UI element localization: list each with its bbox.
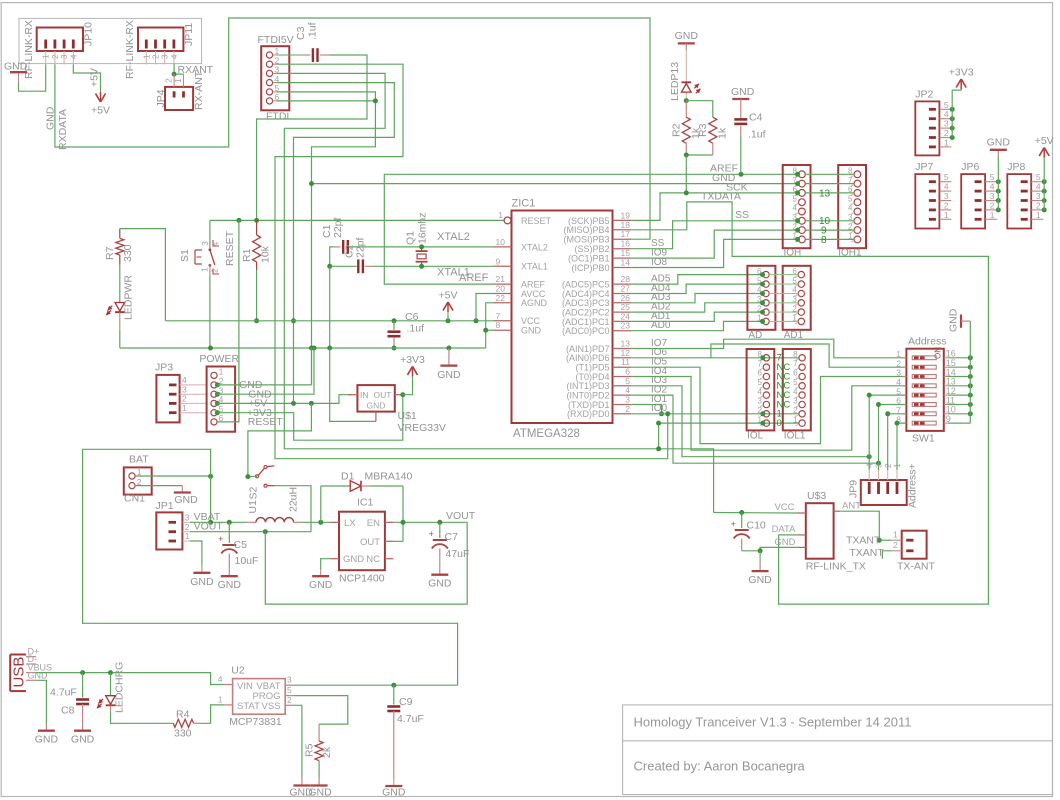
svg-text:.1uf: .1uf [407,323,425,335]
pin (ICP)PB0 right [613,267,632,269]
wire IO2 to JP9 riser [631,395,878,463]
wire FTDI-GND riser lower [311,348,313,385]
svg-text:5: 5 [287,685,292,695]
svg-text:C5: C5 [234,539,248,551]
node RXANT junction [172,72,177,77]
svg-text:5: 5 [848,194,853,203]
svg-text:OUT: OUT [374,390,392,400]
svg-text:GND: GND [774,537,795,548]
svg-text:TXANT: TXANT [846,535,881,547]
svg-text:D1: D1 [341,471,355,483]
capacitor C6 [393,321,395,330]
wire IOH to IOH1 rows [805,173,854,175]
svg-text:47uF: 47uF [446,548,470,560]
svg-text:ZIC1: ZIC1 [512,198,536,210]
power +3V3 arrow (JP2) [956,79,961,88]
svg-text:(ICP)PB0: (ICP)PB0 [571,263,609,273]
pin (ADC2)PC2 right [613,311,632,313]
svg-text:GND: GND [437,369,461,381]
wire SCK net [631,193,799,221]
svg-text:4: 4 [170,54,179,59]
wire FTDI pin1 (DTR) staircase to RESET [257,55,367,220]
svg-text:5: 5 [757,378,762,387]
svg-text:1: 1 [498,210,503,220]
svg-text:3: 3 [757,397,762,406]
connector JP11 [138,28,183,52]
pin USB VBUS [26,672,36,674]
ic U$1 VREG33V [357,385,394,412]
svg-text:IOH1: IOH1 [838,248,862,259]
svg-text:1: 1 [219,367,224,377]
svg-text:8: 8 [496,320,501,330]
svg-text:GND: GND [35,734,59,746]
svg-text:7: 7 [793,359,798,368]
svg-text:+: + [429,529,434,539]
node C10 junction [739,510,744,515]
ground GND (JP1) [193,572,210,574]
svg-text:5: 5 [793,194,798,203]
resistor R3 [709,117,717,143]
wire IO9 net [631,230,799,258]
connector IOH [783,165,811,248]
wire VBAT loop to charger [83,449,458,685]
svg-text:22: 22 [496,293,506,303]
svg-text:(MOSI)PB3: (MOSI)PB3 [563,235,609,245]
wire LED13 pin [685,50,687,82]
ground GND (R5) [311,784,328,786]
svg-text:1: 1 [200,267,210,272]
svg-text:AGND: AGND [521,298,548,308]
svg-text:XTAL1: XTAL1 [521,262,548,272]
svg-text:4: 4 [793,387,798,396]
pin SW1 4 [903,385,907,387]
svg-text:AD0: AD0 [651,320,671,331]
pin IN stub [348,394,357,396]
svg-text:JP8: JP8 [1007,161,1025,173]
wire IO0 row to IOL1 pin2 [631,413,798,415]
svg-text:RF-LINK_TX: RF-LINK_TX [806,561,866,573]
svg-text:Homology Tranceiver V1.3 - Sep: Homology Tranceiver V1.3 - September 14 … [634,715,912,730]
wire C10 to GND [742,550,760,552]
pin (ADC5)PC5 right [613,283,632,285]
svg-text:GND: GND [521,326,542,336]
pin (INT1)PD3 right [613,385,632,387]
pin SW1 1 [903,357,907,359]
pin SW1 5 [903,394,907,396]
wire TXANT pin2 stubwire [882,551,891,559]
svg-text:+3V3: +3V3 [949,67,974,79]
pin OUT stub [385,540,394,542]
svg-text:JP11: JP11 [183,23,195,46]
svg-text:13: 13 [819,188,831,199]
wire VOUT rail (JP1 pin2) [190,531,311,533]
svg-text:MBRA140: MBRA140 [365,471,413,483]
svg-text:1: 1 [944,137,949,147]
connector FTDI (FTDI5V) [261,46,289,110]
diode D1 [321,485,350,487]
wire VBUS net [36,673,224,685]
ground GND at JP10 [10,71,27,73]
wire R4 to U2 pin1 [202,705,225,723]
svg-text:VOUT: VOUT [446,510,476,522]
wire to R2 R3 [685,101,687,118]
svg-text:2: 2 [287,695,292,705]
svg-text:17: 17 [621,229,631,239]
svg-text:R2: R2 [671,123,683,137]
wire U$3 GND [760,547,798,550]
wire IO8 net [631,239,799,267]
node BAT junctions [208,474,213,479]
pin (AIN0)PD6 right [613,357,632,359]
svg-text:VOUT: VOUT [194,521,224,533]
svg-text:7: 7 [757,359,762,368]
svg-text:Q1: Q1 [405,231,417,245]
svg-text:R5: R5 [304,743,316,757]
svg-text:GND: GND [367,401,386,411]
connector IOL [747,349,775,430]
connector AD [747,266,775,330]
svg-text:R1: R1 [241,248,253,262]
pin EN stub [385,521,394,523]
svg-text:JP1: JP1 [156,500,174,512]
svg-text:VCC: VCC [774,502,794,513]
svg-text:EN: EN [367,518,380,529]
svg-text:CN1: CN1 [124,493,145,505]
svg-text:C6: C6 [405,311,419,323]
pin USB D+ [26,656,36,658]
svg-text:4: 4 [793,204,798,213]
pin (T1)PD5 right [613,366,632,368]
ground GND (IC1) [312,575,329,577]
pin (SCK)PB5 right [613,219,632,221]
power +3V3 arrow (U$1) [403,376,413,394]
node VOUT rail junctions [401,520,406,525]
ic U2 MCP73831 [233,679,286,715]
svg-text:10k: 10k [260,245,272,263]
svg-text:4: 4 [211,242,221,247]
wire IO7 loop to SW1 [631,339,906,358]
node LED13 bottom junction [684,98,689,103]
node FTDI pin6 junction [373,98,378,103]
wire FTDI pin2 staircase [275,64,668,459]
svg-text:5: 5 [793,378,798,387]
wire JP6 to GND [996,179,1001,184]
ic ZIC1 ATMEGA328 body [512,211,613,424]
svg-text:6: 6 [757,369,762,378]
pin (ADC3)PC3 right [613,302,632,304]
wire C1 C2 ground riser [329,266,331,348]
pin SW1 7 [903,413,907,415]
svg-text:SW1: SW1 [912,433,935,445]
svg-text:TXANT: TXANT [849,547,884,559]
svg-text:22uH: 22uH [288,487,300,512]
svg-text:IN: IN [360,390,369,400]
svg-text:U2: U2 [231,665,245,677]
svg-text:+3V3: +3V3 [400,354,425,366]
pin AVCC left [494,293,512,295]
svg-text:9: 9 [946,414,951,424]
pin SW1 2 [903,366,907,368]
svg-text:AREF: AREF [459,272,489,284]
svg-text:POWER: POWER [199,353,239,365]
svg-text:ANT: ANT [842,501,861,512]
wire GND pin8 [486,329,494,331]
svg-text:(ADC0)PC0: (ADC0)PC0 [562,326,610,336]
svg-text:R3: R3 [697,123,709,137]
switch S2 [256,475,259,478]
svg-text:GND: GND [218,579,242,591]
svg-text:1: 1 [142,54,151,59]
top-left receiver group frame [19,18,202,63]
power +5V arrow (JP10) [96,94,101,103]
ground GND (C5) [221,575,238,577]
wire JP9 risers to SW1 [869,395,906,470]
svg-text:1: 1 [42,54,51,59]
wire DATA into U$3 [779,534,798,536]
switch S1 [195,249,202,251]
connector IOH1 [838,165,866,248]
wire RXDATA from JP10 pin2 [55,18,650,239]
switch SW1 sliders [912,356,936,360]
pin (ADC4)PC4 right [613,293,632,295]
svg-text:Created by: Aaron Bocanegra: Created by: Aaron Bocanegra [634,759,806,774]
svg-text:C10: C10 [747,520,766,532]
svg-text:JP7: JP7 [915,161,933,173]
wire XTAL1 net [330,265,355,267]
svg-text:9: 9 [496,256,501,266]
wire BAT pin1 VBAT [135,475,211,477]
resistor R2 [682,117,690,143]
pin XTAL2 left [494,246,512,248]
wire D1 anode riser [320,486,322,522]
svg-text:10: 10 [496,237,506,247]
wire POWER pin6 RESET [217,220,239,422]
wire IO3 to JP9 riser [631,386,869,457]
svg-text:16mhz: 16mhz [417,212,429,244]
LED LEDPWR [115,303,125,312]
svg-text:330: 330 [174,728,192,740]
wire POWER pin5 +3V3 [217,395,403,441]
svg-text:FTDI: FTDI [266,111,289,123]
node +5V crossing junction [291,318,296,323]
ground GND (JP6) [990,149,1007,151]
wire IO6 loop to SW1 [631,344,906,367]
wire AVCC riser [476,294,494,321]
resistor R1 [256,220,258,235]
svg-text:1k: 1k [717,127,729,139]
node OUT junction [400,392,405,397]
pin SW1 3 [903,376,907,378]
svg-text:ON: ON [934,347,943,359]
ground GND (U2 VSS) [293,784,310,786]
connector JP4 [165,87,193,110]
wire LEDPWR to GND line [119,312,121,330]
svg-text:3: 3 [287,675,292,685]
pin U$1 GND stub [375,412,377,422]
svg-text:IO8: IO8 [651,257,668,268]
svg-text:U1: U1 [247,500,259,514]
svg-text:XTAL2: XTAL2 [521,242,548,252]
wire VBAT down to LX rail [210,476,212,522]
ic U$3 RF-LINK_TX [806,503,834,559]
svg-text:BAT: BAT [129,454,149,466]
capacitor C2 [357,259,359,273]
svg-text:IOL1: IOL1 [784,431,806,442]
pin (TXD)PD1 right [613,404,632,406]
wire USB GND [36,680,46,723]
svg-text:GND: GND [987,136,1011,148]
crystal Q1 [421,247,423,251]
pin LX stub [331,521,340,523]
connector JP2 [915,101,939,155]
pin OUT stub [395,394,400,396]
node +5V row junctions [291,401,296,406]
connector AD1 [783,266,811,330]
wire SS net [631,221,799,249]
title block [623,705,1053,795]
pin SW1 8 [903,422,907,424]
svg-text:4: 4 [218,674,223,684]
node branch junction [656,446,661,451]
ic IC1 NCP1400 [339,512,385,571]
pin (RXD)PD0 right [613,413,632,415]
svg-text:RXDATA: RXDATA [57,109,69,150]
resistor R5 [315,741,323,761]
pin NC stub [385,558,394,560]
svg-text:JP2: JP2 [915,88,933,100]
svg-text:6: 6 [793,369,798,378]
svg-text:LEDP13: LEDP13 [669,62,681,101]
svg-text:TX-ANT: TX-ANT [897,561,936,573]
wire AD5-AD0 nets [631,275,763,285]
svg-text:NCP1400: NCP1400 [339,573,385,585]
svg-text:GND: GND [731,86,755,98]
node +5V rail junctions [392,318,397,323]
svg-text:22pf: 22pf [355,237,367,258]
svg-text:.1uf: .1uf [307,22,319,40]
pin (ADC1)PC1 right [613,320,632,322]
wire R7 top to +5V line [120,229,166,321]
node VOUT junction [263,529,268,534]
pin SW1 6 [903,404,907,406]
svg-text:+5V: +5V [91,105,110,117]
pin (OC1)PB1 right [613,257,632,259]
svg-text:+: + [218,534,223,544]
ground GND (C7) [431,574,448,576]
pin GND left [494,329,512,331]
svg-text:GND: GND [4,61,28,73]
pin (INT0)PD2 right [613,394,632,396]
svg-text:VIN: VIN [237,681,253,692]
wire R7 to LEDPWR [119,265,121,303]
svg-text:2k: 2k [321,746,333,758]
svg-text:4.7uF: 4.7uF [397,713,424,725]
ground GND (USB) [38,730,55,732]
node IOL junction dots [760,355,765,360]
svg-text:C3: C3 [295,26,307,40]
pin ANT stub [834,510,841,512]
wire SW1 right pins to GND column [948,357,970,359]
svg-text:GND: GND [382,787,406,799]
svg-text:2: 2 [210,268,220,273]
svg-text:OUT: OUT [360,537,380,548]
pin U2 stubs [224,684,233,686]
pin GND stub IC1 [331,558,340,560]
svg-text:U$1: U$1 [398,410,417,422]
svg-text:GND: GND [428,578,452,590]
ground GND (SW1) rotated [960,315,962,328]
svg-text:(RXD)PD0: (RXD)PD0 [567,409,610,419]
svg-text:JP10: JP10 [83,22,95,46]
connector JP1 [156,512,182,549]
svg-text:10uF: 10uF [235,555,259,567]
pin (AIN1)PD7 right [613,348,632,350]
svg-text:+5V: +5V [1035,135,1054,147]
capacitor C8 [82,673,84,698]
node GND rail junctions [208,346,213,351]
wire IO1 drop [631,405,661,414]
power +5V arrow (rail) [447,312,449,321]
pin AGND left [494,302,512,304]
switch SW1 Address body [906,349,943,431]
svg-text:2: 2 [152,54,161,59]
node XTAL1 junction [327,264,332,269]
svg-text:1: 1 [182,403,187,413]
svg-text:S2: S2 [248,486,260,499]
power +5V arrow (JP8) [1039,148,1044,157]
svg-text:IOH: IOH [784,248,802,259]
svg-text:RESET: RESET [248,416,284,428]
svg-text:VSS: VSS [261,701,280,712]
svg-text:C9: C9 [399,696,413,708]
wire RESET line [210,219,504,221]
pin AREF left [494,283,512,285]
svg-text:XTAL2: XTAL2 [437,231,470,243]
svg-text:RESET: RESET [224,230,236,266]
wire row0 to IOL1 pin1 [659,422,799,424]
wire JP8 to +5V [1042,179,1047,184]
wire JP11 pin4 to JP4 [173,64,175,74]
svg-text:USB: USB [11,657,28,688]
svg-text:22pf: 22pf [332,217,344,238]
svg-text:0: 0 [777,418,782,429]
ground GND (BAT) [174,491,191,493]
wire AGND riser [486,303,494,348]
svg-text:4.7uF: 4.7uF [50,687,77,699]
wire U2 VSS to GND [294,705,302,777]
wire JP1 pin1 to GND [190,541,202,566]
svg-text:GND: GND [675,30,699,42]
connector JP6 [961,174,985,228]
svg-text:TXDATA: TXDATA [701,191,741,203]
ground GND (C10) [752,570,769,572]
svg-text:2: 2 [793,406,798,415]
connector JP3 [156,375,179,423]
svg-text:Address+: Address+ [907,463,919,508]
node LX junctions [208,520,213,525]
wire POWER pin3 GND [217,348,314,394]
svg-text:GND: GND [343,554,364,565]
wire LEDCHRG to R4 [110,705,112,712]
svg-text:1: 1 [185,531,190,541]
wire FTDI pin5/6 staircase to GND [277,92,376,385]
connector JP9 [861,480,907,505]
node SCK junction [684,190,689,195]
wire R2 R3 join [686,154,713,156]
wire TXDATA net [631,202,988,604]
svg-text:LEDPWR: LEDPWR [123,275,135,320]
connector POWER [207,367,236,432]
